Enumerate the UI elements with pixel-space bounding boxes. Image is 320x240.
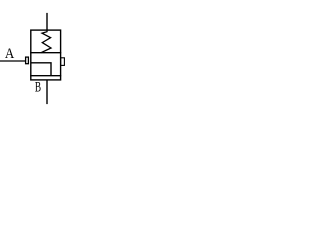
svg-text:A: A [5,46,15,62]
svg-text:B: B [35,79,41,95]
